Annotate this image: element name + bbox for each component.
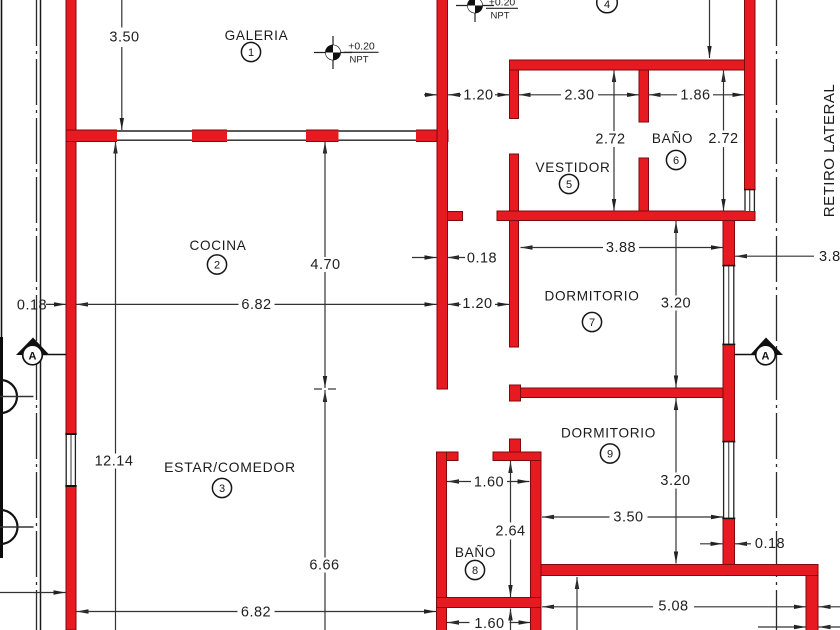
wall V3 upper segment (510, 62, 519, 119)
wall V6 dormitorio right (723, 221, 735, 566)
svg-text:1.60: 1.60 (474, 475, 504, 491)
svg-text:5: 5 (566, 179, 572, 191)
label banio6 (652, 131, 693, 170)
wall V2 stub right (448, 212, 463, 221)
dim ext line x510 bottom (508, 609, 512, 621)
wall H2 top (510, 60, 756, 70)
svg-text:VESTIDOR: VESTIDOR (535, 160, 610, 175)
svg-text:A: A (762, 351, 770, 363)
wall H5 dormitorio9 bottom (531, 565, 818, 576)
svg-text:1.86: 1.86 (680, 88, 710, 104)
svg-text:NPT: NPT (491, 11, 510, 22)
svg-text:0.18: 0.18 (755, 536, 785, 552)
svg-text:ESTAR/COMEDOR: ESTAR/COMEDOR (164, 459, 296, 475)
window in left wall (65, 433, 76, 487)
section marker A right (735, 338, 784, 365)
svg-text:3: 3 (219, 483, 225, 495)
svg-text:2.64: 2.64 (495, 524, 525, 540)
dim 3.50 dormitorio9 (542, 515, 554, 519)
dim 2.72 left vertical (612, 70, 616, 82)
section marker A left (16, 338, 66, 365)
dim 3.50 vertical galeria (121, 0, 123, 28)
svg-text:9: 9 (607, 449, 613, 461)
svg-text:0.18: 0.18 (467, 251, 497, 267)
dim ext line x577 (575, 577, 579, 589)
dim 12.14 vertical (113, 142, 117, 154)
svg-text:3.20: 3.20 (661, 296, 691, 312)
dim line right of V7 upper (819, 605, 831, 609)
dim line at y627 (758, 626, 806, 628)
svg-text:5.08: 5.08 (658, 599, 688, 615)
svg-text:7: 7 (589, 317, 595, 329)
svg-text:2.72: 2.72 (595, 132, 625, 148)
dim 1.60 banio8 top (447, 479, 459, 483)
svg-text:6.82: 6.82 (241, 605, 271, 621)
svg-text:3.50: 3.50 (613, 510, 643, 526)
label estar/comedor (164, 459, 296, 498)
svg-text:BAÑO: BAÑO (652, 131, 693, 146)
dim 3.20 dormitorio9 vertical (674, 398, 678, 410)
dim 5.08 bottom (542, 605, 554, 609)
svg-text:2: 2 (214, 260, 220, 272)
left thick edge bar (0, 337, 3, 558)
wall H6 banio8 bottom (437, 598, 542, 608)
wall V3 mid segment (510, 154, 519, 347)
wall H4 dormitorio7 bottom (521, 388, 724, 398)
svg-text:12.14: 12.14 (95, 454, 134, 470)
dim 0.18 / 6.82 / 1.20 line (46, 303, 66, 305)
dim break ticks at 4.70/6.66 (314, 388, 322, 390)
svg-text:0.18: 0.18 (17, 298, 47, 314)
boundary solid line left (40, 0, 42, 630)
wall banio8 top (493, 452, 541, 461)
svg-text:3.88: 3.88 (819, 249, 840, 265)
svg-text:RETIRO LATERAL: RETIRO LATERAL (821, 84, 838, 217)
wall V7 right bottom exterior (806, 576, 818, 630)
label vestidor (535, 160, 610, 194)
window H1 b (227, 129, 306, 142)
dim 3.88 right side (735, 254, 747, 258)
svg-text:6.82: 6.82 (241, 297, 271, 313)
WINDOWS (65, 129, 755, 519)
label galeria (225, 28, 289, 62)
dim 0.18 wall V6 (700, 543, 723, 545)
grid bubble circle (left, upper) (0, 380, 17, 413)
label room4 circle (597, 0, 618, 13)
wall V3 bath stub (510, 439, 521, 453)
svg-text:2.30: 2.30 (564, 88, 594, 104)
svg-text:DORMITORIO: DORMITORIO (561, 426, 656, 441)
wall H1 galeria/cocina (66, 130, 448, 142)
svg-text:A: A (29, 351, 37, 363)
dim line y592 left (0, 592, 66, 594)
wall V1 left exterior (66, 0, 76, 630)
svg-text:GALERIA: GALERIA (225, 28, 289, 43)
wall V8 banio8 left (437, 452, 447, 630)
window in V6 lower (722, 441, 735, 519)
svg-text:3.20: 3.20 (660, 473, 690, 489)
wall V5 right exterior (745, 0, 756, 211)
svg-text:1.20: 1.20 (463, 88, 493, 104)
svg-text:1.60: 1.60 (474, 616, 504, 630)
window in V6 upper (722, 265, 735, 345)
grid axis line (left, upper) (0, 396, 34, 398)
dim 3.20 dormitorio7 vertical (674, 221, 678, 233)
svg-text:6: 6 (673, 155, 679, 167)
label dormitorio9 (561, 426, 656, 464)
dim 1.60 banio8 bottom (447, 620, 459, 624)
svg-text:6.66: 6.66 (309, 558, 339, 574)
svg-text:COCINA: COCINA (189, 238, 246, 253)
wall V2 cocina right (437, 0, 448, 389)
svg-text:1: 1 (248, 47, 254, 59)
dim arrow top room4 (709, 0, 711, 58)
label dormitorio7 (544, 289, 639, 332)
svg-text:3.50: 3.50 (109, 30, 139, 46)
window H1 c (339, 129, 417, 142)
svg-text:NPT: NPT (350, 55, 369, 66)
npt level symbol galeria (314, 36, 379, 69)
wall H3 vestidor/banio bottom (497, 211, 755, 221)
dim 3.88 dormitorio7 top (521, 245, 533, 249)
svg-text:2.72: 2.72 (708, 131, 738, 147)
grid bubble circle (left, lower) (0, 510, 18, 544)
dim 6.82 bottom (77, 609, 89, 613)
wall V3 lower stub (510, 385, 521, 401)
property dash-dot line left (36, 0, 38, 630)
svg-text:4.70: 4.70 (310, 257, 340, 273)
dim 2.64 banio8 vertical (508, 461, 512, 473)
dim 4.70 / 6.66 vertical (323, 142, 327, 154)
property dash-dot line right (776, 0, 778, 630)
svg-text:DORMITORIO: DORMITORIO (544, 289, 639, 304)
dim line 1.20 2.30 1.86 top (424, 94, 437, 96)
svg-text:3.88: 3.88 (606, 240, 636, 256)
left border thin line (1, 0, 3, 340)
dim 2.72 right vertical (721, 70, 725, 82)
npt level symbol top (456, 0, 518, 22)
svg-text:+0.20: +0.20 (489, 0, 516, 8)
svg-text:8: 8 (472, 565, 478, 577)
window in V5 banio6 (744, 189, 756, 211)
svg-text:4: 4 (604, 0, 610, 11)
wall V8 top stub (447, 452, 459, 461)
svg-text:+0.20: +0.20 (348, 40, 375, 52)
window H1 a (117, 129, 192, 142)
dim 0.18 wall V2 (412, 257, 437, 259)
wall V4 banio8 right (531, 461, 542, 630)
svg-text:1.20: 1.20 (462, 296, 492, 312)
wall banio6 left lower (639, 158, 649, 211)
label cocina (189, 238, 246, 274)
grid axis line (left, lower) (0, 526, 34, 528)
wall banio6 left upper (639, 70, 649, 122)
label banio8 (455, 545, 496, 580)
svg-text:BAÑO: BAÑO (455, 545, 496, 560)
